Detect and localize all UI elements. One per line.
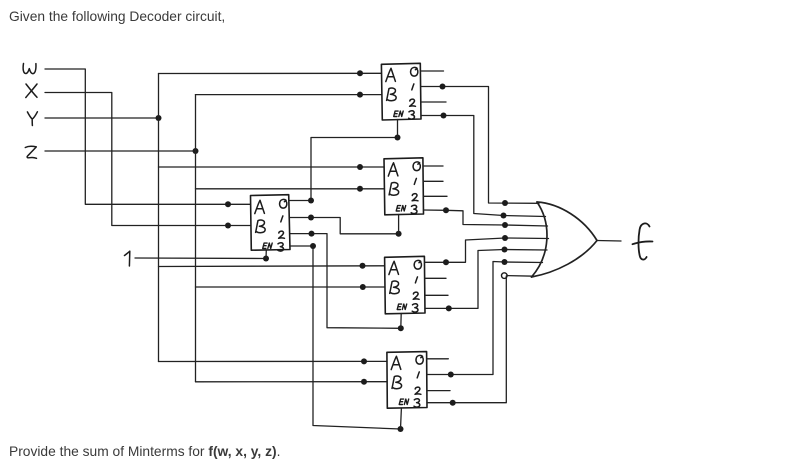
node D4.A dot: [361, 358, 367, 364]
node OR input1 dot: [502, 200, 508, 206]
wire OR output: [597, 240, 621, 243]
node OR input6 dot: [502, 259, 508, 265]
OR gate U1: [532, 202, 598, 277]
node D0.out2 bend dot: [309, 231, 315, 237]
input label Y: [27, 112, 37, 126]
input label W: [23, 64, 36, 74]
node OR input5 dot: [502, 247, 508, 253]
wire W to decoder D0 input A: [45, 69, 251, 204]
wire D2.out1 stub: [424, 180, 444, 182]
wire D1.out0 stub: [421, 70, 444, 72]
node D3.A dot: [360, 263, 366, 269]
wire D4 EN drop: [400, 408, 403, 429]
decoder D3 box: [385, 256, 425, 314]
wire D4.out1 to OR input 6: [427, 262, 543, 375]
wire D3.out3 to OR input 5: [425, 250, 547, 309]
node Z junction: [193, 148, 199, 154]
wire Y to D1.A: [159, 72, 382, 74]
node D0.EN dot: [263, 256, 269, 262]
wire OR input7 lead: [507, 275, 535, 278]
node D4.B dot: [361, 379, 367, 385]
wire Z to D2.B: [196, 188, 385, 190]
node D2.out3 dot: [443, 207, 449, 213]
node D3.B dot: [360, 284, 366, 290]
wire D4.out0 stub: [427, 358, 448, 360]
input label X: [26, 84, 37, 98]
node X-B dot: [225, 223, 231, 229]
wire D3 EN drop: [400, 314, 402, 329]
wire D1.out1 to OR input 1: [421, 87, 539, 204]
wire Y horizontal: [45, 117, 159, 119]
wire D3.out0 to OR input 4: [425, 238, 549, 262]
wire D2.out3 to OR input 3: [424, 210, 548, 226]
node D2.EN dot: [396, 231, 402, 237]
wire D2 EN drop: [398, 215, 400, 234]
wire Y to D2.A: [159, 166, 385, 168]
wire Y vertical bus: [158, 74, 160, 362]
node D0.out3 bend dot: [310, 243, 316, 249]
output label f: [633, 223, 653, 259]
node D0.out1 bend dot: [308, 215, 314, 221]
wire Z to D4.B: [196, 381, 388, 383]
decoder D2 box: [384, 158, 424, 215]
node D1.B dot: [357, 92, 363, 98]
wire Y to D3.A: [159, 265, 385, 268]
node D4.out3 dot: [450, 400, 456, 406]
wire D0 EN drop: [265, 250, 267, 259]
node D4.EN dot: [398, 426, 404, 432]
node OR input7 ring: [502, 273, 508, 279]
wire D0.out1 to D2.EN: [290, 218, 399, 234]
wire D0.out2 to D3.EN: [290, 234, 401, 329]
node D4.out1 dot: [448, 372, 454, 378]
wire D1 EN drop: [397, 120, 399, 138]
node Y junction: [156, 115, 162, 121]
constant 1 label: [125, 251, 130, 266]
wire X to decoder D0 input B: [45, 93, 251, 226]
wire D4.out2 stub: [427, 390, 450, 392]
title text: [9, 9, 225, 24]
wire D2.out0 stub: [424, 165, 444, 167]
node OR input3 dot: [502, 222, 508, 228]
node D3.out0 dot: [443, 259, 449, 265]
node D2.A dot: [357, 164, 363, 170]
node D1.out3 dot: [441, 113, 447, 119]
decoder D4 box: [387, 352, 427, 409]
wire D3.out2 stub: [425, 294, 448, 296]
wire D2.out2 stub: [424, 195, 448, 197]
wire Z horizontal: [45, 150, 196, 152]
wire D1.out3 to OR input 2: [421, 116, 546, 217]
wire D0.out3 to D4.EN: [290, 246, 401, 429]
bottom text: [9, 444, 280, 459]
wire Y to D4.A: [159, 360, 388, 362]
node D2.B dot: [357, 186, 363, 192]
node D3.EN dot: [398, 325, 404, 331]
input label Z: [25, 146, 36, 158]
wire Z vertical bus: [195, 95, 197, 382]
node D3.out3 dot: [446, 305, 452, 311]
wire Z to D3.B: [196, 286, 385, 288]
node D1.A dot: [357, 70, 363, 76]
node OR input2 dot: [501, 213, 507, 219]
decoder D1 box: [381, 63, 421, 120]
wire Z to D1.B: [196, 94, 382, 96]
wire constant 1 to D0.EN: [135, 257, 266, 260]
wire D1.out2 stub: [421, 101, 446, 103]
node D1.EN dot: [395, 135, 401, 141]
node W-A dot: [225, 201, 231, 207]
decoder D0 box: [251, 195, 291, 251]
node D0.out0 bend dot: [308, 198, 314, 204]
wire D3.out1 stub: [425, 277, 446, 279]
wire D4.out3 to OR input 7: [427, 276, 506, 403]
node D1.out1 dot: [440, 84, 446, 90]
node OR input4 dot: [502, 235, 508, 241]
wire D0.out0 to D1.EN: [290, 138, 398, 201]
